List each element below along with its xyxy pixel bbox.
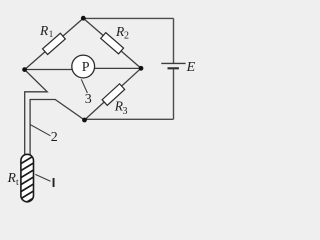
svg-text:3: 3 (123, 106, 128, 117)
label R1 (39, 23, 53, 39)
svg-text:1: 1 (49, 29, 54, 39)
wire bottom: bottom node to bottom-right corner (85, 118, 174, 120)
node center-right (junction dot) (139, 66, 144, 71)
thermistor Rt: capsule body with hatching (17, 152, 40, 208)
label 1 (53, 178, 55, 187)
label 2 (51, 130, 58, 145)
wire right vertical lower: battery to bottom-right corner (173, 68, 175, 119)
resistor R2 body (101, 33, 124, 54)
label 3 (85, 92, 92, 107)
wire left horizontal: left node to galvanometer (25, 69, 73, 71)
wire right vertical upper: corner down to battery top plate (173, 18, 175, 63)
node left (junction dot) (22, 67, 27, 72)
wire top: apex node to top-right corner (83, 17, 173, 19)
svg-text:E: E (186, 60, 196, 75)
svg-text:2: 2 (124, 31, 129, 42)
wire branch R2: apex to center node (83, 18, 141, 68)
wire branch R3: bottom node to center node (85, 68, 142, 120)
leader line to label 1 (35, 174, 50, 181)
svg-text:P: P (82, 60, 90, 75)
wire zigzag upper: left node down-right, left, then down (lead wire 1) (25, 70, 48, 155)
leader line to label 3 (81, 79, 87, 93)
svg-text:2: 2 (51, 130, 58, 145)
label P (82, 60, 90, 75)
label R3 (114, 99, 128, 117)
node bottom (junction dot) (82, 118, 87, 123)
wire branch R1: left node to apex (25, 18, 84, 69)
battery E: short thick plate (168, 67, 179, 69)
label E (186, 60, 196, 75)
label R2 (115, 24, 129, 42)
galvanometer P (circle) (72, 55, 95, 78)
label Rt (7, 170, 19, 188)
resistor R3 body (102, 84, 125, 106)
svg-text:t: t (16, 178, 19, 188)
wire zigzag lower: bottom node up-left, left, then down (lead wire 2) (30, 100, 84, 155)
battery E: long plate (161, 62, 185, 64)
svg-text:3: 3 (85, 92, 92, 107)
leader line to label 2 (30, 125, 50, 136)
resistor R1 body (43, 33, 66, 54)
node apex (junction dot) (81, 16, 86, 21)
svg-text:R: R (39, 23, 49, 38)
wire right horizontal: galvanometer to center node (94, 67, 141, 69)
